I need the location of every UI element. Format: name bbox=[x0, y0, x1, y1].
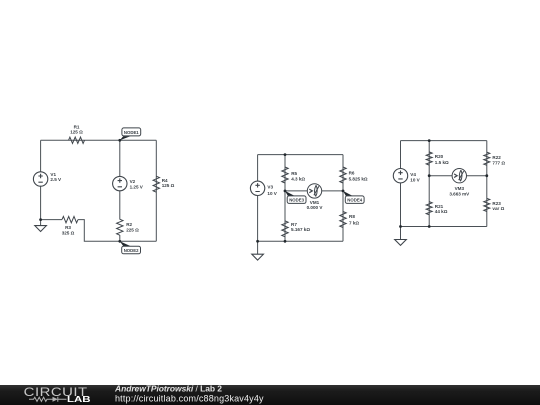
wire voltmeter row c3 bbox=[429, 175, 487, 177]
node NODE2 bbox=[118, 240, 140, 254]
svg-text:4.3 kΩ: 4.3 kΩ bbox=[291, 176, 305, 181]
resistor R3 bbox=[62, 216, 78, 235]
svg-text:R6: R6 bbox=[349, 170, 355, 175]
svg-text:R8: R8 bbox=[349, 214, 355, 219]
svg-text:VM3: VM3 bbox=[455, 186, 465, 191]
svg-text:R20: R20 bbox=[435, 154, 444, 159]
voltmeter VM1 bbox=[307, 184, 324, 210]
voltage source V4 bbox=[393, 169, 420, 183]
svg-text:125 Ω: 125 Ω bbox=[162, 183, 175, 188]
svg-text:325 Ω: 325 Ω bbox=[62, 230, 75, 235]
resistor R21 bbox=[426, 202, 448, 215]
ground c2 bbox=[252, 254, 264, 260]
svg-text:var Ω: var Ω bbox=[492, 206, 504, 211]
junction mid-right c3 bbox=[485, 174, 488, 177]
wire left rail c2 bbox=[257, 155, 259, 242]
svg-text:AndrewTPiotrowski / Lab 2: AndrewTPiotrowski / Lab 2 bbox=[114, 384, 222, 394]
junction top c2 bbox=[284, 153, 287, 156]
wire bottom rail c2 bbox=[258, 240, 343, 242]
wire top rail c2 bbox=[258, 154, 343, 156]
junction bottom-mid c3 bbox=[428, 225, 431, 228]
svg-text:1.5 kΩ: 1.5 kΩ bbox=[435, 160, 449, 165]
wire bottom rail c3 bbox=[401, 226, 487, 228]
ground c3 bbox=[395, 240, 407, 246]
svg-text:V3: V3 bbox=[267, 185, 273, 190]
svg-text:R4: R4 bbox=[162, 178, 168, 183]
svg-text:R5: R5 bbox=[291, 171, 297, 176]
node NODE1 bbox=[118, 128, 140, 142]
svg-text:5.825 kΩ: 5.825 kΩ bbox=[349, 177, 368, 182]
svg-text:1.25 V: 1.25 V bbox=[130, 185, 144, 190]
svg-text:R22: R22 bbox=[492, 155, 501, 160]
svg-text:R2: R2 bbox=[126, 222, 132, 227]
svg-text:44 kΩ: 44 kΩ bbox=[435, 209, 448, 214]
voltage source V1 bbox=[33, 172, 62, 186]
svg-text:225 Ω: 225 Ω bbox=[126, 228, 139, 233]
voltage source V2 bbox=[113, 176, 144, 190]
svg-text:V4: V4 bbox=[410, 172, 416, 177]
wire voltmeter row c2 bbox=[285, 190, 343, 192]
svg-text:7 kΩ: 7 kΩ bbox=[349, 220, 359, 225]
junction bottom-left c2 bbox=[256, 240, 259, 243]
wire right branch c2 bbox=[342, 155, 344, 242]
resistor R1 bbox=[69, 124, 85, 143]
voltmeter VM3 bbox=[449, 169, 470, 197]
svg-text:125 Ω: 125 Ω bbox=[70, 130, 83, 135]
svg-text:NODE1: NODE1 bbox=[124, 130, 139, 135]
resistor R6 bbox=[340, 167, 368, 183]
node NODE4 bbox=[342, 190, 364, 204]
resistor R4 bbox=[153, 176, 175, 192]
voltage source V3 bbox=[250, 181, 277, 196]
wire top rail c3 bbox=[401, 140, 487, 142]
wire right branch c1 bbox=[155, 140, 157, 241]
wire top rail c1 bbox=[41, 139, 157, 141]
wire middle branch c1 bbox=[119, 140, 121, 241]
wire left rail c1 bbox=[40, 140, 42, 219]
wire left rail c3 bbox=[400, 141, 402, 227]
logo schematic line bbox=[29, 397, 67, 402]
wire ground stub c1 bbox=[40, 220, 42, 226]
junction mid-left c3 bbox=[428, 174, 431, 177]
footer bar bbox=[0, 0, 1, 1]
svg-text:5.167 kΩ: 5.167 kΩ bbox=[291, 227, 310, 232]
svg-text:http://circuitlab.com/c88ng3ka: http://circuitlab.com/c88ng3kav4y4y bbox=[115, 394, 264, 404]
junction bottom-left c3 bbox=[399, 225, 402, 228]
svg-text:10 V: 10 V bbox=[410, 178, 420, 183]
wire right branch c3 bbox=[486, 141, 488, 227]
resistor R20 bbox=[426, 152, 449, 165]
resistor R23 bbox=[484, 198, 505, 211]
node junction V1-R3 bbox=[39, 218, 42, 221]
junction top c3 bbox=[428, 139, 431, 142]
svg-text:V2: V2 bbox=[130, 179, 136, 184]
node NODE3 bbox=[284, 190, 306, 204]
wire ground stub c2 bbox=[257, 241, 259, 254]
svg-text:777 Ω: 777 Ω bbox=[492, 160, 505, 165]
svg-text:10 V: 10 V bbox=[267, 191, 277, 196]
svg-text:LAB: LAB bbox=[67, 395, 91, 404]
junction bottom-mid c2 bbox=[284, 240, 287, 243]
ground c1 bbox=[35, 226, 47, 232]
svg-text:NODE4: NODE4 bbox=[347, 198, 362, 203]
wire mid branch c3 bbox=[428, 141, 430, 227]
svg-text:NODE3: NODE3 bbox=[289, 198, 304, 203]
svg-text:3.663 mV: 3.663 mV bbox=[449, 192, 470, 197]
resistor R8 bbox=[340, 212, 360, 228]
resistor R2 bbox=[117, 219, 140, 235]
wire R3 row and bottom rail c1 bbox=[41, 220, 157, 242]
svg-text:NODE2: NODE2 bbox=[124, 248, 139, 253]
resistor R7 bbox=[282, 221, 311, 237]
wire mid branch c2 bbox=[284, 155, 286, 242]
svg-text:0.000 V: 0.000 V bbox=[307, 205, 324, 210]
wire ground stub c3 bbox=[400, 227, 402, 240]
svg-text:2.5 V: 2.5 V bbox=[50, 177, 62, 182]
resistor R5 bbox=[282, 167, 306, 183]
resistor R22 bbox=[484, 152, 506, 165]
